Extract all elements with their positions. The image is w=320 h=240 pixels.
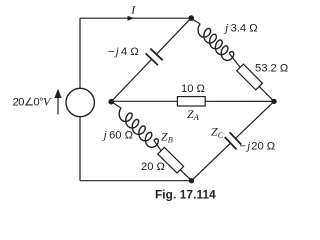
node T xyxy=(188,15,194,21)
voltage source VS circle xyxy=(66,88,94,116)
wire bottom-left vertical xyxy=(79,117,81,181)
node L xyxy=(108,99,114,105)
svg-text:j 60 Ω: j 60 Ω xyxy=(102,127,134,141)
wire top-left vertical xyxy=(79,18,81,88)
svg-text:j 3.4 Ω: j 3.4 Ω xyxy=(223,21,258,35)
wire inductor j60 to resistor 20 xyxy=(154,140,161,150)
resistor 10 body ZA xyxy=(177,97,205,106)
node R xyxy=(271,99,276,104)
wire capacitor -j4 to T xyxy=(156,18,191,54)
svg-text:− j 20 Ω: − j 20 Ω xyxy=(240,138,276,152)
svg-text:ZB: ZB xyxy=(161,129,173,144)
wire resistor 10 to R xyxy=(205,100,274,102)
inductor j60 coil ZB xyxy=(119,108,158,147)
inductor j3.4 coil xyxy=(198,24,234,60)
wire resistor 53.2 to R xyxy=(259,87,274,102)
wire inductor j3.4 to resistor 53.2 xyxy=(229,53,240,67)
svg-text:− j 4 Ω: − j 4 Ω xyxy=(108,44,139,58)
wire L to inductor j60 xyxy=(111,102,121,109)
wire top horizontal xyxy=(80,17,191,19)
wire L to resistor 10 xyxy=(111,100,177,102)
svg-text:Fig. 17.114: Fig. 17.114 xyxy=(155,187,216,201)
current arrow head xyxy=(128,16,135,21)
svg-text:20∠0°V: 20∠0°V xyxy=(13,95,52,109)
node B xyxy=(189,178,194,183)
capacitor C1 plate 2 xyxy=(150,49,162,61)
svg-text:I: I xyxy=(130,3,136,17)
wire bottom horizontal xyxy=(80,180,192,182)
source arrow head xyxy=(54,89,61,98)
resistor 53.2 body xyxy=(237,64,263,90)
wire B to capacitor ZC xyxy=(192,143,231,181)
resistor 20 body xyxy=(158,147,184,173)
svg-text:ZC: ZC xyxy=(211,125,224,140)
wire T to inductor j3.4 xyxy=(191,18,200,24)
wire L to capacitor -j4 xyxy=(111,59,152,101)
source arrow line xyxy=(57,97,59,115)
svg-text:53.2 Ω: 53.2 Ω xyxy=(255,63,288,75)
wire capacitor ZC to R xyxy=(235,101,274,138)
capacitor ZC plate 2 xyxy=(230,132,242,144)
svg-text:10 Ω: 10 Ω xyxy=(181,83,205,95)
capacitor C1 plate 1 xyxy=(146,53,158,65)
wire resistor 20 to B xyxy=(180,170,191,181)
svg-text:ZA: ZA xyxy=(187,107,200,122)
svg-text:20 Ω: 20 Ω xyxy=(141,161,165,173)
capacitor ZC plate 1 xyxy=(225,137,237,149)
